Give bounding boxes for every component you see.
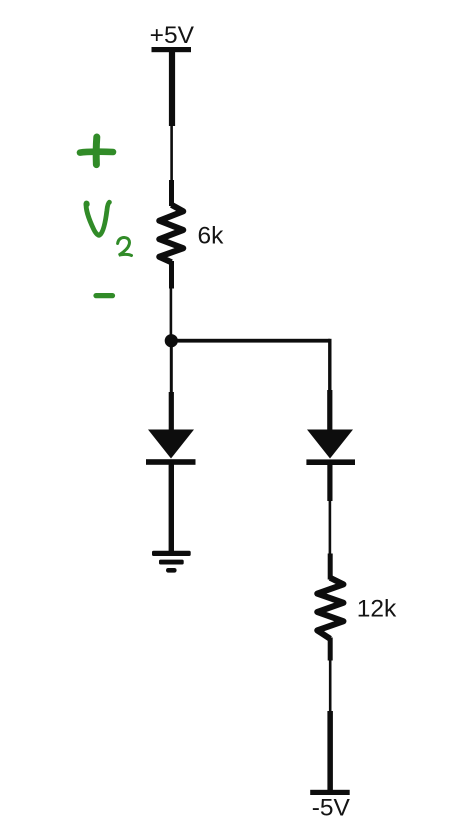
wire: right corner down to diode D2 (thin) (328, 339, 331, 392)
resistor 12k bottom lead (328, 638, 333, 661)
wire: thin segment resistor 6k to node A (170, 288, 173, 338)
svg-text:-5V: -5V (312, 794, 351, 821)
wire: thin segment 12k to -5V lead (329, 660, 332, 712)
diode D1 cathode bar (146, 459, 196, 465)
diode D1 triangle (148, 430, 194, 459)
resistor 6k zigzag body (159, 205, 183, 262)
diode D1 anode lead (169, 392, 174, 431)
node A junction dot (165, 334, 178, 347)
wire: D2 cathode thick lead down (327, 464, 332, 501)
annotation plus sign (green handwritten) (80, 137, 113, 165)
wire: node A to right corner (horizontal) (171, 339, 330, 343)
resistor 12k top lead (328, 554, 333, 580)
svg-text:+5V: +5V (150, 22, 195, 49)
ground symbol (152, 551, 191, 573)
wire: D1 cathode to ground (169, 464, 174, 552)
annotation minus sign (green handwritten) (96, 293, 113, 298)
resistor 6k (bottom lead) (169, 261, 174, 289)
svg-text:12k: 12k (357, 596, 397, 623)
wire: thin segment D2 to resistor 12k (329, 501, 332, 555)
diode D2 triangle (307, 430, 353, 459)
resistor 12k zigzag body (317, 578, 343, 639)
annotation V2 (green handwritten) (84, 201, 132, 256)
wire: +5V bar down (thick lead) (169, 50, 175, 126)
resistor 6k (top lead) (169, 180, 174, 206)
+5V supply rail bar (152, 47, 192, 52)
diode D2 anode lead (327, 390, 332, 431)
wire: thick lead to -5V bar (327, 711, 333, 791)
wire: thin segment to resistor 6k (170, 126, 173, 181)
svg-text:6k: 6k (198, 222, 225, 249)
diode D2 cathode bar (306, 459, 355, 465)
wire: thin segment node A to diode D1 (170, 346, 173, 394)
-5V supply rail bar (310, 790, 350, 795)
